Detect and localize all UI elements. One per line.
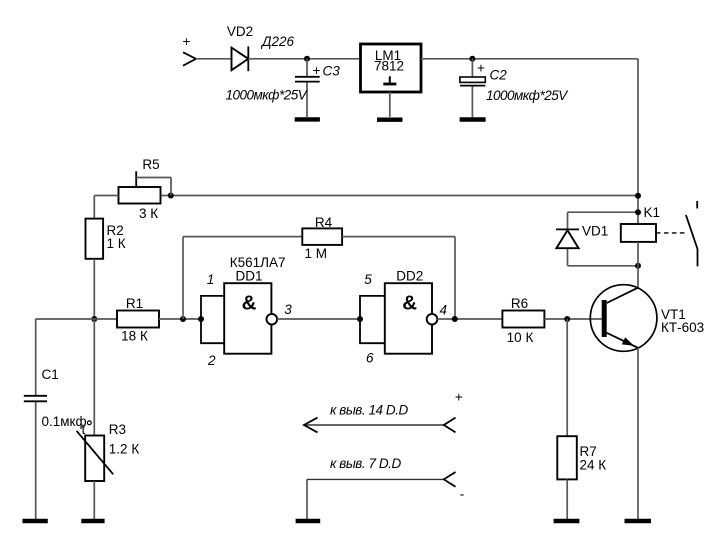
ground — [554, 519, 580, 523]
resistor R5 trimmer — [119, 171, 172, 203]
svg-text:к выв. 7 D.D: к выв. 7 D.D — [330, 456, 401, 471]
relay K1 coil — [621, 224, 656, 242]
svg-text:6: 6 — [366, 351, 374, 366]
capacitor C3 — [295, 59, 320, 117]
node base line left — [91, 316, 97, 322]
svg-text:C1: C1 — [42, 367, 59, 382]
svg-text:0.1мкф: 0.1мкф — [42, 414, 87, 429]
svg-text:1.2 К: 1.2 К — [109, 441, 140, 456]
ground — [296, 519, 321, 523]
svg-text:24 К: 24 К — [580, 458, 607, 473]
svg-text:1: 1 — [207, 272, 215, 287]
wire — [161, 195, 639, 197]
wire emitter rail — [637, 348, 639, 519]
node base junction — [564, 316, 570, 322]
svg-text:C2: C2 — [490, 68, 508, 83]
svg-text:-: - — [460, 487, 465, 502]
svg-text:4: 4 — [440, 303, 448, 318]
svg-text:+: + — [477, 61, 485, 76]
svg-text:+: + — [455, 390, 463, 405]
svg-text:3: 3 — [284, 302, 292, 317]
label +C2 — [477, 61, 507, 83]
LM1 ground pin wire — [389, 92, 391, 117]
svg-text:VD1: VD1 — [582, 223, 608, 238]
svg-text:2: 2 — [207, 353, 216, 368]
wire — [159, 318, 201, 320]
svg-text:K1: K1 — [644, 205, 661, 220]
transistor Q VT1 — [590, 285, 657, 352]
supply arrow to pin 7 — [307, 472, 456, 519]
regulator LM1 7812 — [361, 44, 422, 92]
node C2 junction — [469, 56, 475, 62]
op-amp U1 gate DD1 — [224, 283, 271, 354]
ground — [295, 117, 320, 121]
svg-text:1 М: 1 М — [305, 246, 328, 261]
wire — [94, 196, 118, 219]
resistor R2 — [86, 219, 104, 259]
node rail junction — [635, 193, 641, 199]
wire — [568, 265, 639, 267]
svg-text:Д226: Д226 — [260, 34, 295, 49]
wire R4 left leg — [183, 237, 302, 319]
wire VD1 leg — [567, 212, 569, 266]
svg-text:R5: R5 — [142, 157, 159, 172]
ground — [625, 519, 652, 523]
relay linkage dashed — [656, 232, 687, 234]
svg-text:C3: C3 — [323, 64, 341, 79]
DD1 output bubble — [267, 314, 278, 325]
svg-text:КТ-603: КТ-603 — [661, 320, 704, 335]
wire — [277, 318, 360, 320]
input terminal + — [183, 34, 196, 66]
gate DD2 input bracket — [360, 296, 385, 343]
svg-text:t: t — [82, 422, 86, 437]
relay contact switch — [686, 201, 698, 266]
wire R4 right leg — [342, 237, 455, 319]
wire — [248, 58, 360, 60]
node DD2 input junction — [357, 316, 363, 322]
resistor R4 — [302, 228, 342, 245]
wire — [93, 259, 95, 319]
svg-text:10 К: 10 К — [507, 330, 534, 345]
wire — [566, 479, 568, 519]
svg-text:+: + — [183, 34, 191, 49]
gate DD2 — [385, 283, 432, 354]
resistor R7 — [557, 436, 577, 479]
svg-text:1000мкф*25V: 1000мкф*25V — [226, 88, 309, 103]
svg-text:5: 5 — [364, 272, 372, 287]
thermistor R3 — [77, 421, 114, 481]
wire — [566, 319, 568, 436]
resistor R1 — [117, 311, 159, 328]
wire — [93, 319, 95, 436]
diode VD2 — [232, 46, 249, 71]
supply arrow to pin 14 — [304, 418, 456, 433]
svg-text:DD2: DD2 — [396, 269, 423, 284]
capacitor C1 — [24, 319, 47, 519]
ground — [377, 117, 403, 121]
svg-text:1000мкф*25V: 1000мкф*25V — [486, 88, 569, 103]
wire rail below relay — [637, 242, 639, 288]
svg-text:VD2: VD2 — [227, 24, 253, 39]
wire — [421, 58, 638, 60]
svg-text:R4: R4 — [315, 215, 333, 230]
node R5 tap junction — [168, 193, 174, 199]
svg-text:&: & — [242, 291, 257, 314]
DD2 output bubble — [427, 314, 438, 325]
svg-text:R3: R3 — [109, 422, 126, 437]
svg-text:R1: R1 — [126, 296, 143, 311]
wire relay top branch — [568, 211, 639, 213]
svg-text:DD1: DD1 — [236, 269, 263, 284]
wire — [437, 318, 502, 320]
ground — [460, 117, 486, 121]
wire right rail — [637, 59, 639, 224]
wire — [93, 481, 95, 519]
wire — [196, 58, 232, 60]
ground — [81, 519, 104, 523]
diode VD1 — [556, 229, 579, 248]
svg-text:18 К: 18 К — [121, 329, 148, 344]
svg-text:3 К: 3 К — [139, 206, 158, 221]
node R4 left junction — [180, 316, 186, 322]
svg-text:к выв. 14 D.D: к выв. 14 D.D — [330, 403, 409, 418]
svg-text:7812: 7812 — [374, 58, 404, 73]
svg-text:1 К: 1 К — [107, 236, 126, 251]
resistor R6 — [502, 311, 544, 328]
gate DD1 input bracket — [201, 296, 224, 343]
node C3 junction — [304, 56, 310, 62]
wire — [544, 318, 601, 320]
capacitor C2 — [460, 59, 485, 117]
wire — [36, 318, 117, 320]
node R4 right junction — [452, 316, 458, 322]
node VD1 bottom — [635, 263, 641, 269]
svg-text:+: + — [312, 63, 320, 78]
ground — [23, 519, 48, 523]
svg-text:R6: R6 — [511, 296, 528, 311]
node VD1 top — [635, 209, 641, 215]
node DD1 input junction — [198, 316, 204, 322]
svg-text:&: & — [402, 291, 417, 314]
label +C3 — [312, 63, 340, 79]
